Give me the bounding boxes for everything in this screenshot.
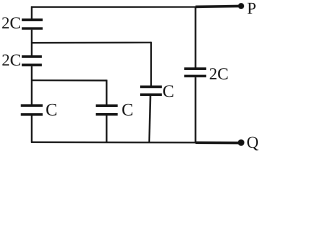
wire: thick bottom bus to node Q [196,141,241,144]
wire: below C4 down to bottom rail [106,115,108,142]
wire: thick top bus to node P [196,5,241,8]
capacitor C5 value C, centre [140,87,162,95]
wire: middle rail toward capacitor C5 branch [31,42,151,44]
node P terminal dot [238,3,244,9]
capacitor C6 value 2C, right [184,69,206,76]
capacitor C2 value 2C, mid-left [22,57,42,65]
label C for C5 [163,85,173,97]
label 2C for C2 [2,55,20,66]
wire: right branch from top rail down to capacitor C6 [195,7,197,68]
wire: drop from lower rail down to capacitor C4 [106,80,108,105]
wire: lower rail toward capacitor C4 branch [31,79,107,81]
label Q [247,137,258,151]
wire: below C3 down to bottom rail [31,116,33,143]
wire: left bus between C2 and C3 [31,66,33,105]
wire: bottom rail thin segment [31,141,196,143]
wire: top rail from left bus to right branch [31,6,196,8]
label C for C4 [122,104,132,116]
label C for C3 [46,104,56,116]
label 2C for C6 [210,68,228,79]
node Q terminal dot [238,139,245,146]
wire: below C6 down to bottom rail [195,77,197,143]
wire: below C5 down to bottom rail [149,96,150,143]
capacitor C1 value 2C, upper-left [22,20,43,29]
capacitor C3 value C, bottom-left [21,106,43,115]
wire: drop from middle rail down to capacitor C5 [150,42,152,86]
wire: left bus between C1 and C2 [31,30,33,56]
label P [247,3,255,14]
label 2C for C1 [2,17,20,28]
capacitor C4 value C, bottom-middle [96,106,118,115]
wire: left bus from top rail to capacitor C1 [31,6,33,19]
